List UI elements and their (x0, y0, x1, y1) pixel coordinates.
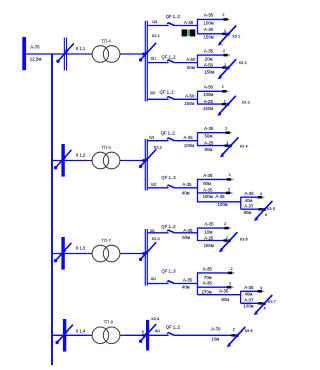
wire circuit 6 lower (198, 240, 228, 242)
svg-text:А-35: А-35 (219, 289, 229, 294)
svg-text:6: 6 (264, 307, 266, 311)
svg-text:2: 2 (224, 222, 226, 226)
disconnector К 1.2 (61, 144, 64, 177)
svg-text:А-35: А-35 (184, 20, 194, 25)
svg-text:А-35: А-35 (244, 285, 254, 290)
svg-text:2: 2 (226, 141, 228, 145)
svg-text:2: 2 (222, 13, 224, 17)
section bus 2 (144, 139, 146, 191)
svg-text:2: 2 (222, 85, 224, 89)
wire circuit 1 upper (198, 18, 228, 20)
line termination arrow (258, 290, 262, 293)
wire circuit 5.2 lower (241, 208, 263, 210)
node junction 7.2 (240, 291, 242, 303)
svg-text:150м: 150м (204, 243, 214, 248)
wire row2: transformer lead left (88, 160, 93, 162)
termination at switch (258, 302, 262, 305)
switch К3 8 (229, 327, 245, 345)
svg-text:Ш2: Ш2 (150, 91, 155, 95)
wire circuit 2 lower (198, 67, 227, 69)
switch К3 7 (256, 295, 272, 313)
svg-text:4: 4 (260, 286, 262, 290)
wire circuit 7 mid (198, 286, 232, 288)
wire row1: transformer lead left (88, 53, 93, 55)
node junction 5.1 (197, 179, 199, 203)
wire row1: transformer to section bus (124, 53, 144, 55)
svg-text:А-35: А-35 (182, 182, 192, 187)
switch К3 3 (219, 96, 235, 114)
svg-text:QF 1..2: QF 1..2 (166, 325, 181, 330)
svg-text:QF 1..3: QF 1..3 (161, 269, 176, 274)
switch К3 6 (221, 232, 237, 250)
transformer ТП-7 (92, 245, 109, 262)
svg-text:80м: 80м (221, 297, 229, 302)
svg-text:А-35: А-35 (215, 194, 225, 199)
svg-text:А-35: А-35 (204, 126, 214, 131)
svg-text:К3 7: К3 7 (268, 299, 277, 304)
svg-text:К 1.3: К 1.3 (76, 245, 86, 250)
svg-text:50м: 50м (205, 134, 213, 139)
wire circuit 7.2 upper (241, 290, 262, 292)
line termination arrow (228, 272, 232, 275)
svg-text:2: 2 (233, 327, 235, 331)
svg-text:А-37: А-37 (244, 203, 254, 208)
wire row2: feeder to switch К 1.2 to transformer (52, 160, 88, 162)
svg-text:QF 1..2: QF 1..2 (166, 14, 181, 19)
svg-text:2: 2 (229, 281, 231, 285)
svg-text:К3 3: К3 3 (242, 99, 251, 104)
svg-text:К3 4: К3 4 (240, 144, 249, 149)
line termination arrow (223, 18, 227, 21)
svg-text:Ш1: Ш1 (151, 57, 156, 61)
svg-text:4: 4 (260, 192, 262, 196)
section bus 4 (146, 320, 149, 351)
svg-text:А-35: А-35 (205, 221, 215, 226)
svg-text:50м: 50м (182, 235, 190, 240)
svg-text:80м: 80м (244, 210, 252, 215)
svg-text:2: 2 (224, 99, 226, 103)
svg-text:К3 6: К3 6 (240, 236, 249, 241)
svg-text:150м: 150м (203, 106, 213, 111)
svg-text:А-50: А-50 (204, 63, 214, 68)
wire circuit 3 upper (198, 90, 227, 92)
svg-text:100м: 100м (203, 92, 213, 97)
termination at switch (225, 144, 229, 147)
svg-text:А-35: А-35 (203, 173, 213, 178)
termination at switch (231, 334, 235, 337)
svg-text:А-25: А-25 (204, 141, 214, 146)
wire circuit 4 upper (198, 132, 230, 134)
svg-text:QF 1..2: QF 1..2 (161, 54, 176, 59)
switch К3 2 (220, 59, 236, 77)
svg-text:К3 2: К3 2 (239, 60, 248, 65)
wire circuit 3 lower (198, 103, 227, 105)
node junction 7.1 (197, 272, 199, 295)
svg-text:А-70: А-70 (30, 44, 40, 49)
breaker QF 1..3 (148, 187, 169, 189)
node junction 2.1 (197, 55, 199, 68)
termination at switch (259, 208, 263, 211)
svg-text:150м: 150м (204, 35, 214, 40)
svg-text:Ш2: Ш2 (151, 182, 156, 186)
wire circuit 5 bottom to junction 5.2 (198, 201, 241, 203)
svg-text:А-35: А-35 (203, 280, 213, 285)
vertical feeder wire from bus down past all transformer rows (51, 54, 53, 365)
svg-text:2: 2 (226, 236, 228, 240)
wire circuit 7.2 lower (241, 302, 263, 304)
transformer ТП-6 (92, 152, 109, 169)
svg-text:2: 2 (231, 267, 233, 271)
svg-text:ТП-9: ТП-9 (104, 320, 114, 325)
svg-text:К3 5: К3 5 (267, 206, 276, 211)
svg-text:QF 1..2: QF 1..2 (161, 224, 176, 229)
line termination arrow (258, 196, 262, 199)
wire row3: transformer lead right (120, 253, 125, 255)
svg-text:К2.1: К2.1 (152, 33, 161, 38)
node junction 5.2 (240, 197, 242, 209)
main supply busbar A-70 (22, 37, 26, 70)
termination at switch (222, 66, 226, 69)
svg-text:20м: 20м (205, 56, 213, 61)
wire row3: transformer to section bus (124, 253, 144, 255)
svg-text:Ш1: Ш1 (152, 20, 157, 24)
svg-text:К3 1: К3 1 (233, 33, 242, 38)
breaker QF 1..2 (148, 232, 169, 234)
line termination arrow (222, 90, 226, 93)
line termination arrow (223, 54, 227, 57)
svg-text:2: 2 (223, 49, 225, 53)
wire row3: transformer lead left (88, 253, 93, 255)
svg-text:А-35: А-35 (204, 13, 214, 18)
node junction 4.1 (197, 132, 199, 146)
svg-text:А-50: А-50 (204, 84, 214, 89)
breaker QF 1..2 (148, 62, 169, 64)
svg-text:90м: 90м (205, 147, 213, 152)
wire row2: transformer lead right (120, 160, 125, 162)
svg-text:К 1.4: К 1.4 (76, 329, 86, 334)
bus entry switch К2.3 (140, 242, 156, 260)
svg-text:2: 2 (224, 63, 226, 67)
svg-text:К2.4: К2.4 (151, 316, 160, 321)
svg-text:А-35: А-35 (204, 27, 214, 32)
wire circuit 7 bottom to junction 7.2 (198, 294, 241, 296)
svg-text:270м: 270м (202, 289, 212, 294)
line termination arrow (224, 227, 228, 230)
svg-text:40м: 40м (182, 285, 190, 290)
wire row4: feeder to switch К 1.4 to transformer (52, 334, 88, 336)
breaker QF 1..3 (148, 283, 169, 285)
svg-text:150м: 150м (184, 101, 194, 106)
svg-text:10м: 10м (211, 336, 219, 341)
node junction 1.1 (197, 19, 199, 34)
svg-text:2: 2 (224, 29, 226, 33)
svg-text:6: 6 (142, 330, 144, 334)
svg-text:А-50: А-50 (186, 57, 196, 62)
svg-text:А-70: А-70 (211, 327, 221, 332)
breaker QF 1..2 (148, 140, 169, 142)
wire circuit 7 top (198, 272, 233, 274)
switch К3 1 (220, 26, 236, 44)
svg-text:К 1.2: К 1.2 (76, 152, 86, 157)
svg-text:А-35: А-35 (183, 278, 193, 283)
line termination arrow (227, 286, 231, 289)
svg-text:QF 1..2: QF 1..2 (160, 90, 175, 95)
termination at switch (222, 103, 226, 106)
svg-text:QF 1..3: QF 1..3 (161, 175, 176, 180)
svg-text:150м: 150м (204, 70, 214, 75)
node junction 6.1 (197, 228, 199, 241)
svg-text:Ш2: Ш2 (151, 277, 156, 281)
svg-text:А-35: А-35 (203, 188, 213, 193)
wire circuit 6 upper (198, 227, 229, 229)
section bus 3 (144, 229, 146, 286)
svg-text:100м: 100м (184, 143, 194, 148)
svg-text:К2.3: К2.3 (152, 236, 161, 241)
fuse block symbol (182, 29, 188, 36)
svg-text:А-35: А-35 (183, 228, 193, 233)
wire circuit 2 upper (198, 54, 228, 56)
disconnector К 1.1 (63, 38, 65, 71)
wire circuit 1 lower (198, 33, 227, 35)
switch К3 5 (256, 201, 272, 219)
wire row1: transformer lead right (120, 53, 125, 55)
wire row2: transformer to section bus (124, 160, 144, 162)
node junction 3.1 (197, 91, 199, 105)
bus entry switch К2.4 (140, 324, 156, 342)
svg-text:12,3м: 12,3м (30, 56, 42, 61)
svg-text:К2.2: К2.2 (154, 145, 163, 150)
svg-text:Ш1: Ш1 (149, 135, 154, 139)
svg-text:80м: 80м (203, 181, 211, 186)
transformer ТП-9 (92, 327, 109, 344)
svg-text:100м: 100м (203, 194, 213, 199)
breaker QF 1..2 (149, 334, 168, 336)
svg-text:ТП-7: ТП-7 (101, 238, 111, 243)
svg-text:2: 2 (225, 126, 227, 130)
breaker QF 1..2 (148, 98, 169, 100)
svg-text:К 1.1: К 1.1 (76, 46, 86, 51)
termination at switch (222, 33, 226, 36)
termination at switch (223, 239, 227, 242)
svg-text:100м: 100м (217, 202, 227, 207)
transformer ТП-4 (92, 46, 109, 63)
svg-text:2: 2 (228, 188, 230, 192)
bus entry switch К2.1 (140, 43, 156, 61)
svg-text:К3 8: К3 8 (245, 328, 254, 333)
disconnector К 1.3 (61, 237, 64, 270)
svg-text:ТП-4: ТП-4 (101, 38, 111, 43)
svg-text:А-37: А-37 (244, 297, 254, 302)
svg-text:А-35: А-35 (184, 135, 194, 140)
svg-text:А-25: А-25 (204, 236, 214, 241)
svg-text:2: 2 (229, 173, 231, 177)
breaker QF 1..2 (148, 25, 169, 27)
svg-text:10м: 10м (205, 229, 213, 234)
svg-text:40м: 40м (182, 190, 190, 195)
wire circuit 4 lower (198, 145, 229, 147)
svg-text:100м: 100м (204, 20, 214, 25)
wire row1: bus to switch K1.1 to transformer (26, 53, 88, 55)
wire row4: transformer to section bus (124, 334, 146, 336)
line termination arrow (227, 178, 231, 181)
svg-text:ТП-6: ТП-6 (101, 145, 111, 150)
svg-text:А-35: А-35 (204, 48, 214, 53)
wire row4: transformer lead right (120, 334, 125, 336)
svg-text:100м: 100м (243, 304, 253, 309)
wire circuit 5 top (198, 178, 232, 180)
svg-text:40м: 40м (245, 291, 253, 296)
line termination arrow (226, 131, 230, 134)
svg-text:А-50: А-50 (185, 94, 195, 99)
bus entry switch К2.2 (140, 149, 156, 167)
switch К3 4 (222, 137, 238, 155)
wire row3: feeder to switch К 1.3 to transformer (52, 253, 88, 255)
svg-text:50м: 50м (187, 65, 195, 70)
line termination arrow (226, 192, 230, 195)
svg-text:QF 1..2: QF 1..2 (161, 131, 176, 136)
svg-text:А-25: А-25 (204, 99, 214, 104)
disconnector К 1.4 (63, 319, 66, 352)
svg-text:А-35: А-35 (245, 191, 255, 196)
wire row4: transformer lead left (88, 334, 93, 336)
svg-text:6: 6 (265, 213, 267, 217)
svg-text:40м: 40м (245, 198, 253, 203)
wire circuit 5 mid (198, 192, 231, 194)
svg-text:Ш1: Ш1 (155, 329, 160, 333)
svg-text:А-35: А-35 (203, 266, 213, 271)
section bus 1 (144, 21, 146, 102)
wire circuit 5.2 upper (241, 196, 262, 198)
